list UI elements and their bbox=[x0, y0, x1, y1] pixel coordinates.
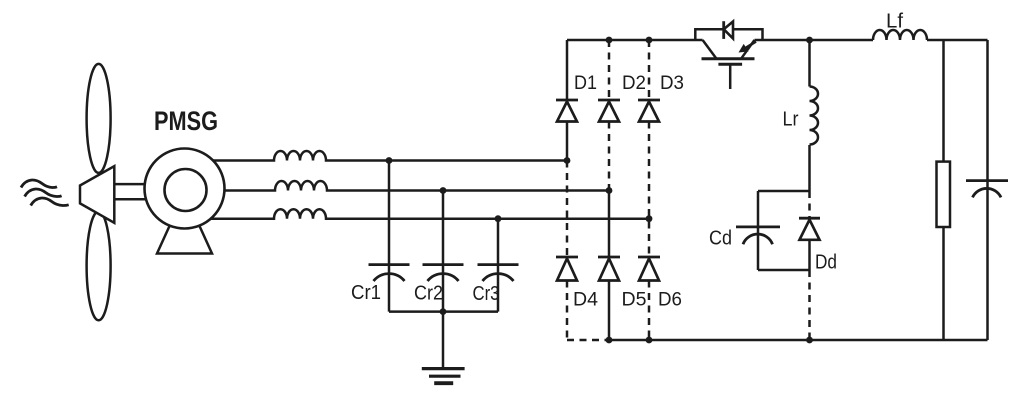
node phase B / Cr2 junction bbox=[440, 187, 447, 194]
wire bottom rail bbox=[609, 339, 988, 342]
wire leg2 to D5 bbox=[608, 191, 611, 258]
generator stand bbox=[157, 226, 212, 254]
svg-text:Dd: Dd bbox=[815, 252, 837, 274]
IGBT emitter slant bbox=[741, 40, 755, 59]
wire leg2 lower bbox=[608, 281, 611, 341]
IGBT body bar bbox=[702, 57, 755, 60]
svg-text:Cr3: Cr3 bbox=[473, 283, 500, 305]
node bottom rail Dd bbox=[806, 337, 813, 344]
generator inner circle bbox=[165, 169, 207, 211]
capacitor Cr3 plates bbox=[478, 265, 519, 281]
IGBT gate lead bbox=[729, 64, 732, 89]
wire leg3 lower dashed bbox=[648, 281, 651, 341]
wind wave 1 bbox=[21, 180, 57, 188]
wire load branch upper bbox=[942, 40, 945, 162]
svg-text:D3: D3 bbox=[660, 72, 684, 94]
svg-text:Lr: Lr bbox=[783, 109, 799, 131]
node phase A to leg1 bbox=[564, 157, 571, 164]
wire leg1 upper bbox=[566, 40, 569, 100]
svg-text:D6: D6 bbox=[658, 289, 682, 311]
diode D6 bbox=[638, 256, 660, 259]
diode D3 bbox=[638, 99, 660, 102]
node top rail leg3 bbox=[646, 37, 653, 44]
diode Dd bbox=[799, 217, 820, 220]
inductor Lf bbox=[873, 30, 927, 40]
wire top rail right of IGBT bbox=[755, 39, 874, 42]
svg-text:D1: D1 bbox=[574, 72, 597, 94]
wire top rail left bbox=[567, 39, 703, 42]
capacitor Cr3 lead bbox=[497, 219, 500, 312]
phase line B (middle) bbox=[210, 181, 609, 191]
svg-text:D2: D2 bbox=[622, 72, 646, 94]
freewheel diode bbox=[722, 21, 725, 39]
node top rail leg2 bbox=[606, 37, 613, 44]
wire capacitor bottoms bus bbox=[389, 310, 498, 313]
IGBT gate bar bbox=[718, 63, 742, 66]
node bottom rail leg3 bbox=[646, 337, 653, 344]
turbine hub bbox=[80, 166, 114, 223]
wire bottom rail dashed segment bbox=[567, 339, 609, 342]
svg-text:D4: D4 bbox=[573, 289, 598, 311]
wind wave 3 bbox=[31, 198, 69, 206]
node phase C to leg3 bbox=[646, 215, 653, 222]
svg-text:Lf: Lf bbox=[886, 11, 903, 33]
wire top rail to corner bbox=[927, 39, 988, 42]
wire to ground bbox=[442, 312, 445, 367]
wire leg3 mid dashed bbox=[648, 122, 651, 258]
wire output cap branch bbox=[986, 40, 989, 340]
capacitor Cr2 plates bbox=[423, 265, 464, 281]
wind wave 2 bbox=[25, 189, 62, 197]
wire leg2 upper dashed bbox=[608, 40, 611, 100]
inductor Lr bbox=[810, 87, 819, 145]
wire Lr lower lead bbox=[808, 145, 811, 191]
node bottom rail leg2 bbox=[606, 337, 613, 344]
capacitor Cd bbox=[736, 227, 780, 244]
capacitor Cr1 plates bbox=[369, 265, 410, 281]
wire dashed to Dd bbox=[808, 191, 811, 218]
capacitor output bbox=[966, 181, 1008, 198]
wire leg2 mid dashed bbox=[608, 122, 611, 191]
wire leg3 upper dashed bbox=[648, 40, 651, 100]
svg-text:PMSG: PMSG bbox=[154, 106, 218, 136]
wire leg1 dashed to D4 bbox=[566, 161, 569, 258]
generator outer circle bbox=[145, 149, 225, 229]
node ground junction bbox=[440, 308, 447, 315]
IGBT emitter arrow bbox=[746, 42, 757, 49]
phase line C (bottom) bbox=[205, 209, 649, 218]
diode D1 bbox=[556, 99, 578, 102]
diode D5 bbox=[598, 256, 620, 259]
wire Cd top bracket bbox=[758, 190, 810, 193]
ground bbox=[422, 369, 465, 384]
diode D2 bbox=[598, 99, 620, 102]
svg-text:Cr2: Cr2 bbox=[414, 283, 443, 305]
wire Cd bottom bracket bbox=[758, 269, 810, 272]
capacitor Cr2 lead bbox=[442, 191, 445, 312]
wire load branch lower bbox=[942, 227, 945, 340]
wire dashed Dd to bottom rail bbox=[808, 270, 811, 340]
shaft bbox=[114, 184, 150, 199]
resistor load bbox=[937, 162, 951, 227]
turbine blade top bbox=[87, 64, 111, 173]
capacitor Cr1 lead bbox=[388, 161, 391, 312]
diode D4 bbox=[556, 256, 578, 259]
node Lr junction bbox=[806, 37, 813, 44]
svg-text:Cr1: Cr1 bbox=[351, 282, 381, 304]
phase line A (top) bbox=[205, 151, 567, 161]
svg-text:Cd: Cd bbox=[709, 228, 732, 250]
svg-text:D5: D5 bbox=[622, 289, 647, 311]
wire leg1 lower dashed bbox=[566, 281, 569, 341]
node phase A / Cr1 junction bbox=[386, 157, 393, 164]
wire Lr upper lead bbox=[808, 40, 811, 87]
turbine blade bottom bbox=[87, 211, 111, 320]
node phase B to leg2 bbox=[606, 187, 613, 194]
IGBT U1 : collector slant bbox=[703, 40, 717, 59]
wire leg1 mid bbox=[566, 122, 569, 161]
freewheel diode loop wire bbox=[695, 29, 762, 40]
wire Dd to bracket bbox=[808, 240, 811, 270]
node phase C / Cr3 junction bbox=[495, 215, 502, 222]
wire Cd lead bbox=[757, 191, 760, 270]
